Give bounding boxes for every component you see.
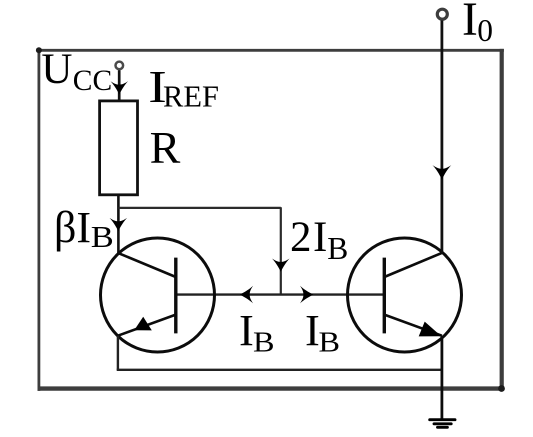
transistor Q2 collector lead [384,253,442,277]
transistor Q1 emitter lead [118,315,176,336]
current arrow IB right (pointing right) [300,286,313,304]
current arrow betaIB (down) [110,218,128,231]
transistor Q2 emitter arrow [419,322,442,337]
transistor Q1 base bar [174,258,177,334]
resistor R [100,101,138,195]
svg-text:βI: βI [54,203,91,252]
svg-text:U: U [41,46,72,93]
svg-text:2I: 2I [290,214,329,261]
transistor Q1 emitter arrow [134,317,152,331]
wire Q2 emitter down to ground [440,336,443,420]
wire resistor bottom to Q1 collector [117,195,120,253]
current arrow 2IB (down) [272,259,290,272]
current arrow I0 (down) [433,165,452,179]
svg-text:B: B [327,231,348,266]
svg-text:B: B [91,219,114,254]
label I0 [462,0,493,48]
label R [150,122,181,173]
transistor Q1 circle [101,238,215,352]
wire Ucc terminal to resistor top [118,70,121,101]
svg-text:I: I [239,305,254,355]
svg-text:B: B [253,328,275,359]
terminal I0 [437,9,447,19]
label betaIB [54,203,114,254]
current arrow IB left (pointing left) [240,286,253,304]
wire base bus Q1 base to Q2 base [176,293,384,295]
label IB right [305,305,340,359]
transistor Q2 circle [348,238,462,352]
current arrow IREF (down) [111,81,129,94]
svg-text:I: I [462,0,478,46]
wire Q1 emitter down [117,336,119,370]
svg-text:R: R [150,122,181,173]
label IB left [239,305,275,359]
transistor Q1 collector lead [118,253,176,277]
wire resistor bottom to 2IB branch (horizontal) [118,207,280,209]
svg-text:CC: CC [73,65,112,97]
label IREF [148,61,219,113]
wire 2IB branch vertical down to base node [280,207,282,294]
terminal Ucc [116,62,124,70]
transistor Q2 emitter lead [384,315,442,336]
wire I0 terminal down to Q2 collector [440,21,443,254]
wire emitter rail (bottom) [117,369,442,371]
svg-text:REF: REF [163,80,219,114]
transistor Q2 base bar [383,258,386,334]
svg-text:0: 0 [477,13,493,48]
outer box (IC boundary) [36,47,505,392]
svg-text:B: B [319,328,341,359]
ground [430,420,455,428]
label Ucc [41,46,112,97]
label 2IB [290,214,348,266]
